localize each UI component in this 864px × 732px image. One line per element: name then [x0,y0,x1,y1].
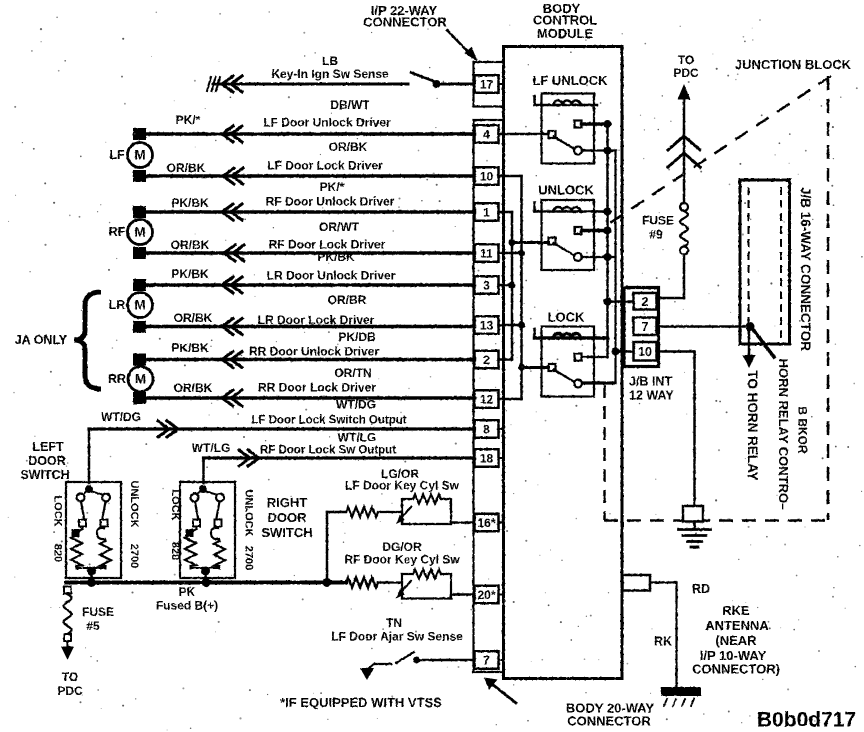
svg-text:UNLOCK: UNLOCK [128,480,140,527]
svg-text:RKE: RKE [722,603,750,618]
svg-text:ANTENNA: ANTENNA [705,618,769,633]
svg-text:CONNECTOR): CONNECTOR) [692,662,780,677]
svg-text:WT/LG: WT/LG [192,441,231,455]
svg-text:RF Door Lock Sw Output: RF Door Lock Sw Output [260,445,396,457]
svg-text:M: M [134,148,145,163]
svg-text:LF Door Key Cyl Sw: LF Door Key Cyl Sw [345,479,460,493]
svg-text:LF Door Lock Switch Output: LF Door Lock Switch Output [251,415,406,427]
svg-text:TO HORN RELAY: TO HORN RELAY [745,370,760,480]
svg-text:16*: 16* [477,516,495,530]
svg-text:7: 7 [483,654,490,668]
svg-text:LF: LF [109,148,125,162]
svg-text:DOOR: DOOR [28,454,66,468]
svg-text:CONNECTOR: CONNECTOR [363,15,447,30]
svg-text:820: 820 [169,542,181,560]
svg-text:LR: LR [109,298,126,312]
svg-text:FUSE: FUSE [642,214,674,228]
svg-text:PK/*: PK/* [176,113,201,127]
svg-text:LF Door Ajar Sw Sense: LF Door Ajar Sw Sense [331,630,463,644]
svg-text:MODULE: MODULE [537,26,594,41]
svg-text:2: 2 [483,353,490,367]
svg-text:PK/BK: PK/BK [317,250,355,264]
svg-text:LF Door Unlock Driver: LF Door Unlock Driver [263,116,391,130]
svg-text:M: M [134,225,145,240]
svg-text:LR Door Lock Driver: LR Door Lock Driver [258,313,375,327]
svg-text:OR/WT: OR/WT [319,220,360,234]
svg-text:RK: RK [654,635,672,649]
svg-text:RIGHT: RIGHT [267,495,308,510]
svg-text:Fused B(+): Fused B(+) [156,599,218,613]
svg-text:LOCK: LOCK [52,495,64,526]
svg-text:LR Door Unlock Driver: LR Door Unlock Driver [267,269,396,283]
svg-text:PDC: PDC [673,66,699,80]
svg-text:TO: TO [62,670,78,684]
svg-text:4: 4 [483,128,490,142]
svg-text:2700: 2700 [128,544,140,568]
svg-text:12 WAY: 12 WAY [629,389,674,403]
svg-text:#9: #9 [649,228,663,242]
svg-text:(NEAR: (NEAR [715,633,757,648]
svg-text:OR/BK: OR/BK [171,238,210,252]
svg-text:OR/BK: OR/BK [174,311,213,325]
svg-text:B0b0d717: B0b0d717 [757,709,856,732]
svg-text:3: 3 [483,279,490,293]
svg-text:2700: 2700 [243,546,255,570]
svg-text:RR Door Unlock Driver: RR Door Unlock Driver [249,345,379,359]
svg-text:TN: TN [386,616,402,630]
svg-text:UNLOCK: UNLOCK [538,183,594,198]
svg-text:*IF EQUIPPED WITH VTSS: *IF EQUIPPED WITH VTSS [280,695,442,710]
svg-text:B BKOR: B BKOR [796,406,810,454]
svg-text:RR: RR [108,372,126,386]
svg-text:LOCK: LOCK [548,310,585,325]
svg-text:WT/DG: WT/DG [336,398,376,412]
svg-text:RR Door Lock Driver: RR Door Lock Driver [258,381,376,395]
svg-text:10: 10 [638,345,652,359]
svg-text:OR/TN: OR/TN [334,366,371,380]
svg-text:PK/DB: PK/DB [338,330,376,344]
svg-text:RF Door Unlock Driver: RF Door Unlock Driver [266,195,395,209]
svg-text:WT/DG: WT/DG [101,410,141,424]
svg-text:PK/*: PK/* [320,180,345,194]
svg-text:PK/BK: PK/BK [171,196,209,210]
svg-text:PDC: PDC [57,684,83,698]
svg-text:TO: TO [678,53,694,67]
svg-text:10: 10 [480,170,494,184]
svg-text:LOCK: LOCK [169,489,181,520]
svg-text:LF UNLOCK: LF UNLOCK [532,73,608,88]
svg-text:1: 1 [483,206,490,220]
svg-text:8: 8 [483,423,490,437]
svg-text:JA ONLY: JA ONLY [15,333,68,347]
svg-text:OR/BK: OR/BK [174,381,213,395]
svg-text:7: 7 [642,320,649,334]
svg-text:FUSE: FUSE [82,605,114,619]
svg-text:13: 13 [480,319,494,333]
svg-text:JUNCTION BLOCK: JUNCTION BLOCK [735,57,852,72]
svg-text:RF: RF [109,225,126,239]
svg-text:LB: LB [322,54,338,68]
svg-text:SWITCH: SWITCH [261,525,312,540]
svg-text:M: M [134,298,145,313]
svg-text:OR/BK: OR/BK [329,140,368,154]
svg-text:OR/BR: OR/BR [328,293,367,307]
svg-text:20*: 20* [477,588,495,602]
svg-text:Key-In Ign Sw Sense: Key-In Ign Sw Sense [271,67,389,81]
svg-text:RF Door Key Cyl Sw: RF Door Key Cyl Sw [344,553,460,567]
svg-text:2: 2 [642,295,649,309]
svg-text:18: 18 [480,452,494,466]
svg-text:J/B 16-WAY CONNECTOR: J/B 16-WAY CONNECTOR [798,187,813,351]
svg-text:DOOR: DOOR [268,510,308,525]
svg-text:M: M [135,372,146,387]
svg-text:PK/BK: PK/BK [171,267,209,281]
svg-text:UNLOCK: UNLOCK [243,489,255,536]
svg-text:OR/BK: OR/BK [167,161,206,175]
svg-text:DB/WT: DB/WT [330,98,370,112]
svg-text:17: 17 [480,78,494,92]
svg-text:PK/BK: PK/BK [171,341,209,355]
svg-text:CONNECTOR: CONNECTOR [567,714,651,729]
svg-text:RD: RD [692,582,710,596]
svg-text:LF Door Lock Driver: LF Door Lock Driver [267,159,383,173]
svg-text:J/B INT: J/B INT [629,375,672,389]
svg-text:WT/LG: WT/LG [338,431,377,445]
svg-text:#5: #5 [86,619,100,633]
svg-text:HORN RELAY CONTRO–: HORN RELAY CONTRO– [776,359,791,511]
svg-text:12: 12 [480,393,494,407]
svg-text:820: 820 [52,544,64,562]
svg-text:SWITCH: SWITCH [20,468,69,482]
svg-text:PK: PK [179,585,196,599]
svg-text:11: 11 [480,247,493,261]
svg-text:LEFT: LEFT [32,440,64,454]
